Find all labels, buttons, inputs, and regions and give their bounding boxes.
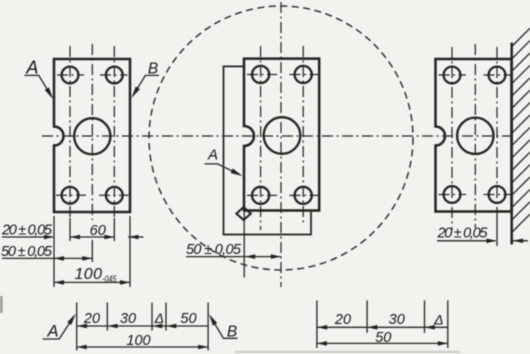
left view: central bore — [74, 118, 110, 154]
plate outline (centre view) — [244, 59, 319, 211]
tolerance zone dashed circle (centre view) — [149, 6, 413, 270]
scan artifact: left edge mark — [0, 296, 3, 313]
svg-text:Δ: Δ — [154, 310, 164, 326]
datum label B (left view) — [133, 75, 159, 95]
svg-text:30: 30 — [389, 312, 405, 328]
bottom-left chain upper dimension line — [77, 325, 208, 327]
scan artifact: bottom smear — [235, 351, 460, 353]
svg-text:20 ± 0,05: 20 ± 0,05 — [437, 225, 489, 241]
centre view holes — [252, 66, 269, 83]
svg-text:-045: -045 — [102, 274, 117, 285]
label B (bottom-left chain) — [211, 318, 238, 339]
bottom-right chain ticks — [317, 300, 448, 348]
dimension tail right of 60 (left view) — [128, 236, 144, 238]
left view: plate outline — [54, 59, 130, 212]
datum label A (left view) — [24, 75, 51, 96]
dimension 20±0,05 (right view) — [496, 213, 498, 246]
svg-text:100: 100 — [126, 333, 150, 349]
svg-text:A: A — [46, 322, 58, 340]
svg-text:20: 20 — [83, 311, 100, 327]
dimension 50±0,05 (centre view) — [243, 212, 245, 278]
main horizontal centerline — [42, 135, 511, 137]
displaced plate thin outline (centre view) — [224, 66, 312, 234]
svg-text:50 ± 0,05: 50 ± 0,05 — [1, 244, 53, 260]
bottom-right chain upper dimension line — [317, 326, 448, 328]
svg-text:50: 50 — [375, 330, 391, 346]
plate outline (right view) — [436, 59, 512, 212]
datum label A (centre view) — [205, 164, 240, 175]
dimension 20±0,05 (left view) — [2, 236, 53, 238]
right view centerlines — [452, 44, 497, 230]
left view: top-right hole — [106, 67, 123, 84]
centre view vertical centerline — [280, 2, 282, 287]
centre view central bore — [264, 117, 301, 154]
svg-text:B: B — [227, 323, 237, 340]
svg-text:B: B — [148, 61, 158, 78]
svg-text:60: 60 — [90, 223, 106, 239]
wall hatching — [512, 28, 530, 232]
svg-text:20 ± 0,05: 20 ± 0,05 — [1, 223, 53, 239]
svg-text:30: 30 — [120, 311, 136, 327]
label A (bottom-left chain) — [43, 317, 74, 339]
svg-text:A: A — [25, 58, 38, 78]
bottom-left chain 100 dimension — [77, 346, 208, 348]
left view centerlines — [70, 44, 114, 220]
svg-text:100: 100 — [75, 266, 103, 283]
bottom-left chain ticks — [77, 303, 208, 351]
dimension 100-045 (left view) — [54, 281, 130, 283]
left view: top-left hole — [62, 67, 79, 84]
dimension 50±0,05 (left view) — [2, 257, 92, 259]
bottom-right chain 50 dimension — [317, 342, 448, 344]
right view central bore — [457, 118, 493, 154]
svg-text:Δ: Δ — [433, 312, 443, 328]
left view: bottom-left hole — [62, 187, 79, 204]
centre view hole centerlines — [261, 46, 304, 230]
svg-text:A: A — [207, 147, 218, 164]
svg-text:50: 50 — [180, 311, 196, 327]
corner support diamond (centre view) — [236, 207, 250, 220]
left view extension lines — [54, 216, 130, 287]
wall datum line — [510, 43, 513, 245]
left view: bottom-right hole — [106, 187, 123, 204]
svg-text:50 ± 0,05: 50 ± 0,05 — [186, 242, 242, 258]
right view holes — [444, 67, 461, 84]
dimension 60 (left view) — [70, 236, 114, 238]
svg-text:20: 20 — [334, 312, 351, 328]
